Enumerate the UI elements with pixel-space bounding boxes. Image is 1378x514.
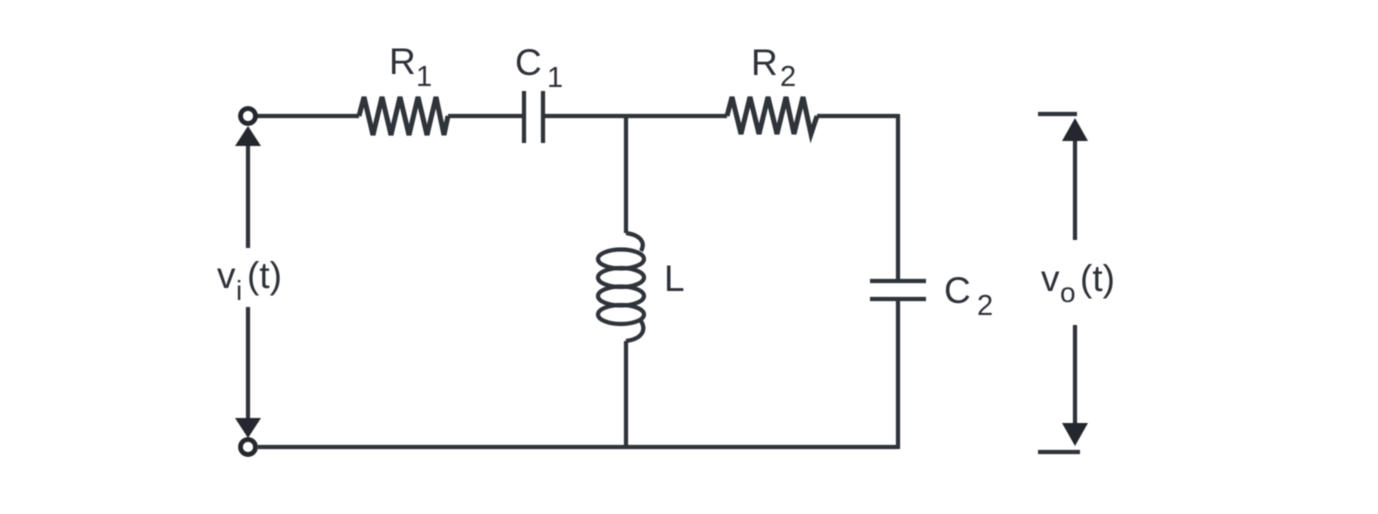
resistor R2 [727, 97, 817, 134]
svg-text:(t): (t) [247, 255, 282, 296]
wire R2 to top-right corner [817, 114, 898, 118]
bottom wire [258, 445, 898, 449]
input terminal bottom circle [241, 440, 256, 455]
svg-text:L: L [664, 258, 685, 299]
svg-text:i: i [236, 275, 242, 306]
wire C1 to R2 through node [543, 114, 727, 118]
svg-text:2: 2 [977, 290, 993, 322]
svg-text:C: C [944, 270, 971, 311]
vo top reference bar [1038, 112, 1077, 116]
svg-text:R: R [751, 42, 778, 83]
wire top-left from input terminal to R1 [257, 114, 359, 118]
inductor L coil [598, 233, 644, 341]
vo arrowhead up [1062, 118, 1088, 141]
capacitor C2 [870, 281, 926, 299]
vi arrow shaft upper [246, 143, 250, 248]
wire inductor to bottom [624, 341, 628, 447]
vo arrow shaft upper [1073, 138, 1077, 240]
vo bottom reference bar [1038, 450, 1080, 454]
svg-text:1: 1 [547, 62, 563, 94]
svg-text:1: 1 [416, 61, 432, 93]
wire right branch down to C2 [896, 114, 900, 280]
svg-text:v: v [217, 255, 236, 296]
vi arrow shaft lower [246, 307, 250, 421]
vo arrowhead down [1062, 423, 1088, 446]
svg-text:(t): (t) [1080, 258, 1115, 299]
wire C2 to bottom-right corner [896, 299, 900, 449]
resistor R1 [359, 97, 448, 135]
capacitor C1 [524, 91, 543, 143]
vi arrowhead down [235, 418, 261, 438]
input terminal top circle [241, 109, 256, 124]
vi arrowhead up [235, 126, 261, 146]
svg-text:v: v [1041, 258, 1060, 299]
svg-text:o: o [1060, 277, 1076, 308]
vo arrow shaft lower [1073, 325, 1077, 428]
svg-text:C: C [515, 42, 542, 83]
svg-text:2: 2 [780, 61, 796, 93]
svg-text:R: R [389, 41, 416, 82]
wire R1 to C1 [448, 114, 524, 118]
node A vertical wire to inductor [624, 116, 628, 233]
